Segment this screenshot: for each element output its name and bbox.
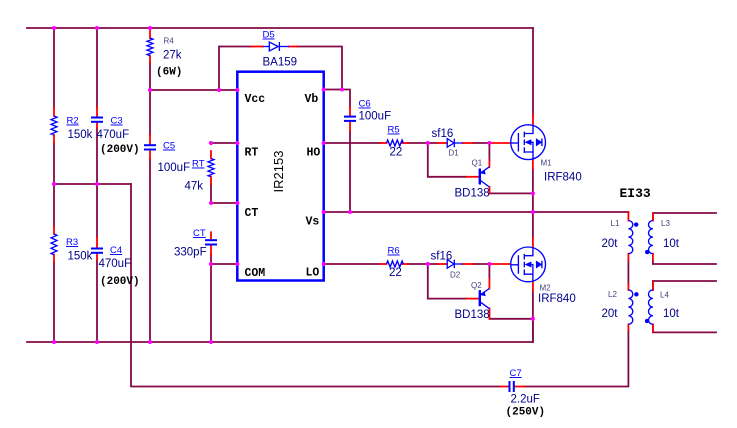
transistor M2 IRF840 (NMOS): [511, 247, 546, 282]
svg-text:C4: C4: [110, 245, 122, 256]
inductor L2 20t: [628, 290, 632, 324]
svg-text:(200V): (200V): [100, 276, 140, 288]
wire L4 secondary bottom: [653, 324, 716, 332]
svg-text:150k: 150k: [68, 129, 93, 141]
wire Vb pin to C6: [324, 90, 350, 108]
svg-text:BA159: BA159: [263, 57, 298, 69]
svg-text:(200V): (200V): [100, 144, 140, 156]
junction R2 / top rail: [52, 26, 56, 30]
svg-text:LO: LO: [306, 267, 320, 280]
svg-text:CT: CT: [193, 228, 206, 239]
pin LO (pin 5): [322, 262, 326, 266]
wire Vs net: [324, 212, 629, 214]
svg-text:BD138: BD138: [455, 188, 490, 200]
junction M2 source / Q2 collector: [531, 317, 535, 321]
R6 leads: [381, 263, 387, 265]
wire C5 column upper: [149, 90, 151, 135]
svg-text:IRF840: IRF840: [544, 172, 582, 184]
wire midpoint column to C7 net: [131, 184, 500, 387]
svg-text:RT: RT: [245, 147, 259, 160]
svg-text:Vcc: Vcc: [245, 93, 266, 106]
wire C3 column upper: [96, 28, 98, 107]
svg-text:10t: 10t: [663, 238, 680, 250]
pin Vcc (pin 1): [235, 88, 239, 92]
resistor R5 22 (horizontal): [387, 140, 404, 146]
svg-text:R3: R3: [66, 237, 78, 248]
svg-text:100uF: 100uF: [359, 111, 392, 123]
Q2 base lead: [467, 298, 479, 300]
junction RT-CT node: [209, 201, 213, 205]
transistor Q1 BD138 (PNP): [480, 167, 490, 187]
C5 leads: [149, 135, 151, 146]
M1 drain lead: [532, 115, 534, 125]
junction D5 branch / Vcc feed: [217, 88, 221, 92]
R5 leads: [381, 142, 387, 144]
wire C5 column lower: [149, 159, 151, 342]
junction R4-C5 node: [148, 88, 152, 92]
diode D1 sf16: [447, 139, 454, 148]
pin CT (pin 3): [235, 201, 239, 205]
svg-text:470uF: 470uF: [99, 258, 132, 270]
phase dot L4: [645, 319, 649, 323]
junction R3 / mid rail: [52, 182, 56, 186]
svg-text:sf16: sf16: [432, 128, 454, 140]
wire M1 drain column: [532, 28, 534, 115]
svg-text:R6: R6: [388, 246, 400, 257]
wire COM pin y=264: [211, 263, 237, 265]
junction M1 source / Q1 collector: [531, 191, 535, 195]
wire C6 column lower: [349, 131, 351, 212]
svg-text:L3: L3: [661, 219, 670, 228]
svg-text:Vs: Vs: [306, 216, 320, 229]
M2 drain lead: [532, 238, 534, 248]
svg-text:C6: C6: [359, 99, 371, 110]
svg-text:EI33: EI33: [620, 186, 651, 201]
R3 leads: [53, 227, 55, 235]
svg-text:D5: D5: [263, 30, 275, 41]
junction D2 anode / Q2 base branch: [426, 262, 430, 266]
junction CT column / bottom rail: [209, 340, 213, 344]
wire M1 source column: [532, 170, 534, 213]
svg-text:C7: C7: [510, 368, 522, 379]
svg-text:150k: 150k: [68, 251, 93, 263]
wire L3 secondary top: [653, 213, 716, 221]
wire RT resistor column lower: [210, 184, 212, 203]
D2 leads: [438, 263, 447, 265]
wire C4 column lower: [96, 260, 98, 342]
svg-text:L4: L4: [660, 291, 669, 300]
wire M2 source column: [532, 292, 534, 343]
svg-text:L1: L1: [611, 219, 620, 228]
svg-text:20t: 20t: [602, 308, 619, 320]
svg-text:M2: M2: [540, 284, 552, 293]
M1 source lead: [532, 160, 534, 170]
resistor R2 150k: [51, 116, 57, 135]
C4 leads: [96, 237, 98, 248]
M1 gate lead: [489, 142, 510, 144]
svg-text:BD138: BD138: [455, 309, 490, 321]
Q1 emitter lead: [488, 160, 490, 167]
wire R2 column lower: [53, 143, 55, 184]
wire mid rail (node between R2/R3): [54, 183, 131, 185]
junction C4 / mid rail: [95, 182, 99, 186]
pin HO (pin 7): [322, 141, 326, 145]
transistor M1 IRF840 (NMOS): [511, 125, 546, 160]
junction D1 cathode / Q1 emitter / M1 gate: [487, 141, 491, 145]
wire CT pin y=203: [211, 202, 237, 204]
svg-text:330pF: 330pF: [174, 247, 207, 259]
Q2 collector lead: [489, 309, 491, 319]
transistor Q2 BD138 (PNP): [480, 289, 490, 309]
svg-text:Q2: Q2: [471, 281, 482, 290]
junction C4 / bottom rail: [95, 340, 99, 344]
pin Vb (pin 8): [322, 87, 326, 91]
pin COM (pin 4): [235, 262, 239, 266]
op-amp / driver IC U1 IR2153 body: [237, 72, 323, 281]
junction D2 cathode / Q2 emitter / M2 gate: [487, 262, 491, 266]
L4 leads: [652, 282, 654, 290]
wire L3 secondary bottom: [653, 261, 716, 265]
C3 leads: [96, 107, 98, 117]
wire Q1 collector to M1 source: [490, 192, 533, 194]
svg-text:IRF840: IRF840: [538, 293, 576, 305]
wire RT pin y=143: [211, 142, 237, 144]
Q1 base lead: [467, 176, 479, 178]
wire L1-L2 series link: [627, 261, 629, 285]
junction D5 / Vb wire: [340, 87, 344, 91]
wire L4 secondary top: [653, 281, 716, 290]
wire R3 column lower: [53, 262, 55, 342]
phase dot L3: [645, 250, 649, 254]
svg-text:CT: CT: [245, 207, 259, 220]
Q2 emitter lead: [488, 279, 490, 289]
junction C3 / top rail: [95, 26, 99, 30]
svg-text:22: 22: [389, 267, 402, 279]
CT cap leads: [210, 232, 212, 240]
junction D1 anode / Q1 base branch: [426, 141, 430, 145]
svg-text:R2: R2: [67, 116, 79, 127]
inductor L3 10t: [649, 221, 653, 254]
capacitor CT 330pF plates: [205, 239, 217, 241]
wire Q2 base branch: [428, 264, 467, 299]
svg-text:C5: C5: [163, 141, 175, 152]
R4 leads: [149, 29, 151, 38]
svg-text:10t: 10t: [663, 308, 680, 320]
D5 leads: [251, 46, 263, 48]
capacitor C4 plates: [91, 248, 103, 250]
capacitor C5 plates: [144, 144, 156, 146]
capacitor C7 plates (horizontal): [509, 381, 511, 392]
wire LO net segments: [324, 263, 381, 265]
L3 leads: [652, 214, 654, 221]
wire M2 drain column: [532, 212, 534, 238]
wire Q1 emitter vertical: [488, 143, 490, 160]
svg-text:Vb: Vb: [305, 93, 319, 106]
svg-text:27k: 27k: [163, 50, 182, 62]
svg-text:Q1: Q1: [472, 159, 483, 168]
resistor R3 150k: [51, 234, 57, 255]
svg-text:L2: L2: [608, 290, 617, 299]
wire R2 column upper: [53, 28, 55, 108]
wire R4 column lower: [149, 63, 151, 91]
svg-text:47k: 47k: [185, 181, 204, 193]
wire Q1 base branch: [428, 143, 467, 177]
svg-text:470uF: 470uF: [97, 129, 130, 141]
C7 leads: [500, 386, 508, 388]
wire bottom rail (-DC bus): [27, 319, 533, 342]
svg-text:R5: R5: [388, 125, 400, 136]
wire C3 column lower: [96, 128, 98, 184]
diode D5 BA159: [263, 46, 269, 48]
capacitor C6 plates: [344, 116, 356, 118]
junction R3 / bottom rail: [52, 340, 56, 344]
wire D5 branch up and across: [219, 47, 252, 91]
svg-text:RT: RT: [192, 159, 205, 170]
pin RT (pin 2): [235, 141, 239, 145]
phase dot L2: [634, 292, 638, 296]
svg-text:22: 22: [390, 147, 403, 159]
svg-text:100uF: 100uF: [158, 162, 191, 174]
wire R3 column upper: [53, 184, 55, 227]
M2 gate lead: [489, 263, 510, 265]
svg-text:D1: D1: [449, 149, 460, 158]
junction RT resistor / RT wire: [209, 141, 213, 145]
junction half-bridge midpoint / Vs net: [531, 210, 535, 214]
svg-text:(250V): (250V): [506, 407, 546, 419]
inductor L4 10t: [649, 290, 653, 324]
L1 leads: [627, 212, 629, 221]
inductor L1 20t: [628, 221, 632, 254]
capacitor C3 plates: [91, 117, 103, 119]
svg-text:20t: 20t: [602, 238, 619, 250]
svg-text:(6W): (6W): [156, 67, 182, 79]
wire Q2 collector to M2 source: [490, 318, 533, 320]
phase dot L1: [634, 222, 638, 226]
wire Q2 emitter vertical: [488, 264, 490, 279]
svg-text:2.2uF: 2.2uF: [511, 394, 540, 406]
C6 leads: [349, 107, 351, 116]
svg-text:C3: C3: [111, 116, 123, 127]
resistor R4 27k: [147, 38, 153, 56]
pin Vs (pin 6): [322, 210, 326, 214]
wire top rail (+DC bus): [27, 27, 533, 29]
R2 leads: [53, 108, 55, 117]
wire C7 net right to L2 bottom: [525, 330, 629, 387]
diode D2 sf16: [447, 260, 454, 269]
junction CT cap / COM wire: [209, 262, 213, 266]
svg-text:R4: R4: [164, 37, 175, 46]
wire Vcc feed y=90: [150, 89, 237, 91]
L2 leads: [627, 284, 629, 290]
junction C5 / bottom rail: [148, 340, 152, 344]
svg-text:M1: M1: [541, 159, 553, 168]
svg-text:sf16: sf16: [431, 251, 453, 263]
resistor R6 22 (horizontal): [387, 261, 404, 267]
M2 source lead: [532, 282, 534, 292]
wire CT cap column lower: [210, 255, 212, 342]
svg-text:COM: COM: [245, 267, 266, 280]
D1 leads: [438, 142, 447, 144]
junction C6 / Vs net: [348, 210, 352, 214]
resistor RT 47k: [208, 159, 214, 177]
wire D5 cathode to Vb: [297, 47, 342, 90]
Q1 collector lead: [489, 187, 491, 193]
svg-text:HO: HO: [307, 147, 321, 160]
svg-text:D2: D2: [450, 271, 461, 280]
wire C4 column upper: [96, 184, 98, 237]
svg-text:IR2153: IR2153: [271, 151, 286, 193]
junction R4 / top rail: [148, 26, 152, 30]
RT resistor leads: [210, 151, 212, 159]
wire HO net segments: [324, 142, 381, 144]
